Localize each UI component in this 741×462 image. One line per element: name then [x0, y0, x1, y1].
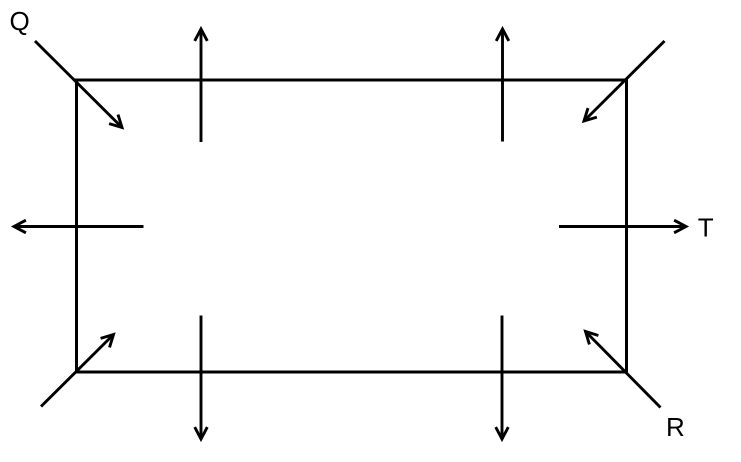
diagonal arrow at corner Q (top-left, pointing inward) — [35, 41, 122, 128]
diagonal arrow at bottom-left corner (pointing inward) — [41, 335, 114, 407]
arrow up (top edge, left) — [195, 29, 208, 142]
arrow down (bottom edge, left) — [195, 316, 208, 440]
svg-text:T: T — [698, 212, 714, 242]
rectangle PQRS body — [77, 80, 627, 372]
svg-text:Q: Q — [10, 6, 30, 36]
arrow right (right edge midpoint, toward T) — [559, 220, 686, 233]
diagonal arrow at top-right corner (pointing inward) — [584, 41, 665, 121]
arrow up (top edge, right) — [496, 29, 509, 142]
diagonal arrow at corner R (bottom-right, pointing inward) — [586, 332, 661, 408]
arrow left (left edge midpoint) — [14, 220, 144, 233]
svg-text:R: R — [666, 412, 685, 442]
arrow down (bottom edge, right) — [496, 316, 509, 440]
